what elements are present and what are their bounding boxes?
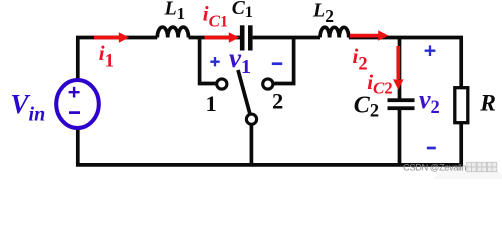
- label 1: [206, 91, 217, 116]
- label Vin: [11, 89, 46, 126]
- wire: C1 to L2: [253, 36, 320, 40]
- wire: C2 branch top: [398, 38, 402, 99]
- inductor L2: [320, 27, 349, 37]
- wire: L2 to top-right corner and down to R: [349, 38, 461, 89]
- switch node 2: [263, 79, 273, 89]
- switch node 1: [217, 79, 227, 89]
- wire: junction drop to node 2: [274, 36, 294, 84]
- switch common pole: [246, 114, 256, 124]
- wire: L1 to C1: [189, 36, 241, 40]
- v1 minus sign: [272, 62, 282, 65]
- label v2: [419, 85, 440, 118]
- label i1: [99, 41, 114, 72]
- label 2: [272, 89, 283, 114]
- switch lever: [238, 70, 250, 114]
- wire: R bottom: [459, 123, 463, 167]
- v2 minus sign: [427, 147, 436, 150]
- current arrow i2: [350, 30, 389, 40]
- watermark blob: [426, 164, 502, 230]
- capacitor C1: [240, 25, 253, 50]
- v1 plus sign: [210, 57, 219, 66]
- current arrow iC1: [205, 32, 240, 42]
- resistor R: [455, 88, 468, 123]
- label iC2: [367, 70, 392, 98]
- wire: top-left from source to L1: [78, 38, 158, 82]
- label L1: [164, 0, 185, 23]
- wire: switch pole to bottom rail: [250, 125, 254, 165]
- current arrow iC2: [393, 46, 403, 90]
- label R: [479, 90, 496, 116]
- svg-text:L1: L1: [164, 0, 185, 23]
- wire: junction drop to node 1: [200, 36, 216, 84]
- label i2: [353, 44, 368, 75]
- svg-text:R: R: [479, 90, 496, 116]
- wire: C2 branch bottom: [398, 109, 402, 167]
- label v1: [229, 43, 251, 78]
- wire: bottom rail: [78, 127, 462, 165]
- svg-text:CSDN @Zevalin: CSDN @Zevalin: [403, 162, 466, 173]
- watermark text: [403, 162, 497, 173]
- svg-text:1: 1: [206, 91, 217, 116]
- inductor L1: [157, 27, 188, 37]
- capacitor C2: [388, 98, 415, 110]
- v2 plus sign: [425, 45, 436, 56]
- label L2: [312, 0, 334, 26]
- label C2: [354, 92, 379, 121]
- svg-text:2: 2: [272, 89, 283, 114]
- voltage source Vin: [56, 80, 99, 128]
- label C1: [232, 0, 253, 21]
- label iC1: [203, 2, 228, 31]
- current arrow i1: [94, 32, 129, 42]
